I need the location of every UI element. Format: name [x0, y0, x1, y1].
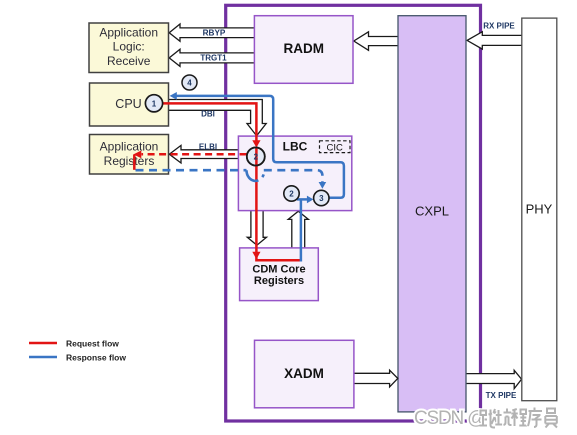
svg-text:CDM Core: CDM Core	[252, 263, 305, 275]
svg-text:CXPL: CXPL	[415, 204, 449, 219]
block arrow TX PIPE (CXPL to PHY)	[466, 370, 522, 400]
svg-text:CPU: CPU	[115, 97, 141, 111]
wire blue dashed response: Application Registers to circle 3	[136, 170, 327, 189]
legend response flow	[29, 353, 126, 363]
node circle 2 (LBC entry, under red wire)	[247, 148, 265, 166]
box CPU	[90, 83, 169, 126]
node circle 4 (above CPU)	[182, 75, 197, 90]
svg-text:3: 3	[319, 194, 324, 203]
wire blue response: circle 3 up and left to CPU	[170, 92, 344, 198]
watermark glyph keng	[495, 409, 511, 426]
svg-text:Receive: Receive	[107, 54, 151, 68]
block arrow TRGT1 (RADM to Application Logic)	[169, 49, 255, 66]
watermark glyph cheng	[511, 409, 527, 426]
watermark CSDN	[414, 408, 485, 429]
outer core boundary (purple)	[226, 5, 481, 421]
box Application Logic: Receive	[89, 23, 169, 73]
node circle 1 (on CPU)	[145, 95, 162, 112]
svg-text:Logic:: Logic:	[113, 40, 145, 54]
svg-text:Application: Application	[100, 139, 159, 153]
legend request flow	[29, 339, 119, 349]
svg-text:Registers: Registers	[254, 275, 304, 287]
svg-text:PHY: PHY	[526, 202, 553, 217]
block arrow XADM to CXPL	[354, 370, 398, 387]
svg-text:CIC: CIC	[327, 142, 344, 153]
svg-text:CSDN @: CSDN @	[414, 408, 485, 429]
watermark glyph xu	[528, 408, 542, 428]
box CDM Core Registers	[240, 248, 319, 301]
box Application Registers	[90, 135, 169, 175]
svg-text:RADM: RADM	[284, 41, 325, 56]
box XADM	[255, 340, 354, 408]
node circle 2 ring and label (LBC entry)	[247, 148, 265, 166]
svg-text:TX PIPE: TX PIPE	[486, 391, 517, 400]
node circle 3 (LBC inner)	[314, 190, 329, 205]
block arrow RX PIPE (PHY to CXPL)	[467, 22, 522, 49]
block arrow DBI (CPU to LBC, elbow)	[169, 100, 267, 136]
watermark glyph yuan	[545, 409, 557, 428]
svg-text:Application: Application	[99, 25, 158, 39]
svg-text:LBC: LBC	[283, 139, 308, 153]
node circle 2 (LBC inner)	[284, 186, 299, 201]
svg-text:DBI: DBI	[201, 110, 215, 119]
svg-text:2: 2	[289, 190, 294, 199]
svg-text:ELBI: ELBI	[199, 142, 217, 151]
block arrow ELBI (LBC to Application Registers)	[169, 142, 238, 163]
box PHY	[522, 18, 557, 401]
wire red request: CPU to LBC circle 2 and down into CDM	[163, 103, 301, 260]
svg-text:Request flow: Request flow	[66, 339, 119, 349]
svg-text:RX PIPE: RX PIPE	[483, 22, 515, 31]
svg-text:XADM: XADM	[284, 366, 324, 381]
svg-text:Registers: Registers	[104, 154, 155, 168]
box RADM	[254, 16, 353, 84]
wire blue response: CDM up to circle 2/3	[297, 196, 313, 262]
block arrow LBC down to CDM	[247, 211, 266, 246]
block arrow RBYP (RADM to Application Logic)	[169, 24, 255, 41]
svg-text:2: 2	[254, 153, 259, 162]
svg-text:Response flow: Response flow	[66, 353, 126, 363]
svg-text:RBYP: RBYP	[203, 29, 226, 38]
svg-text:4: 4	[187, 79, 192, 88]
svg-text:TRGT1: TRGT1	[200, 54, 227, 63]
sub-box CIC (dashed)	[320, 141, 351, 154]
watermark glyph tiao	[480, 409, 498, 428]
box LBC	[238, 136, 351, 211]
block arrow CDM up to LBC	[288, 211, 308, 248]
wire red dashed request: circle 2 to Application Registers	[133, 151, 246, 170]
box CXPL	[398, 16, 466, 412]
svg-text:1: 1	[152, 99, 157, 108]
block arrow CXPL to RADM	[354, 32, 398, 51]
